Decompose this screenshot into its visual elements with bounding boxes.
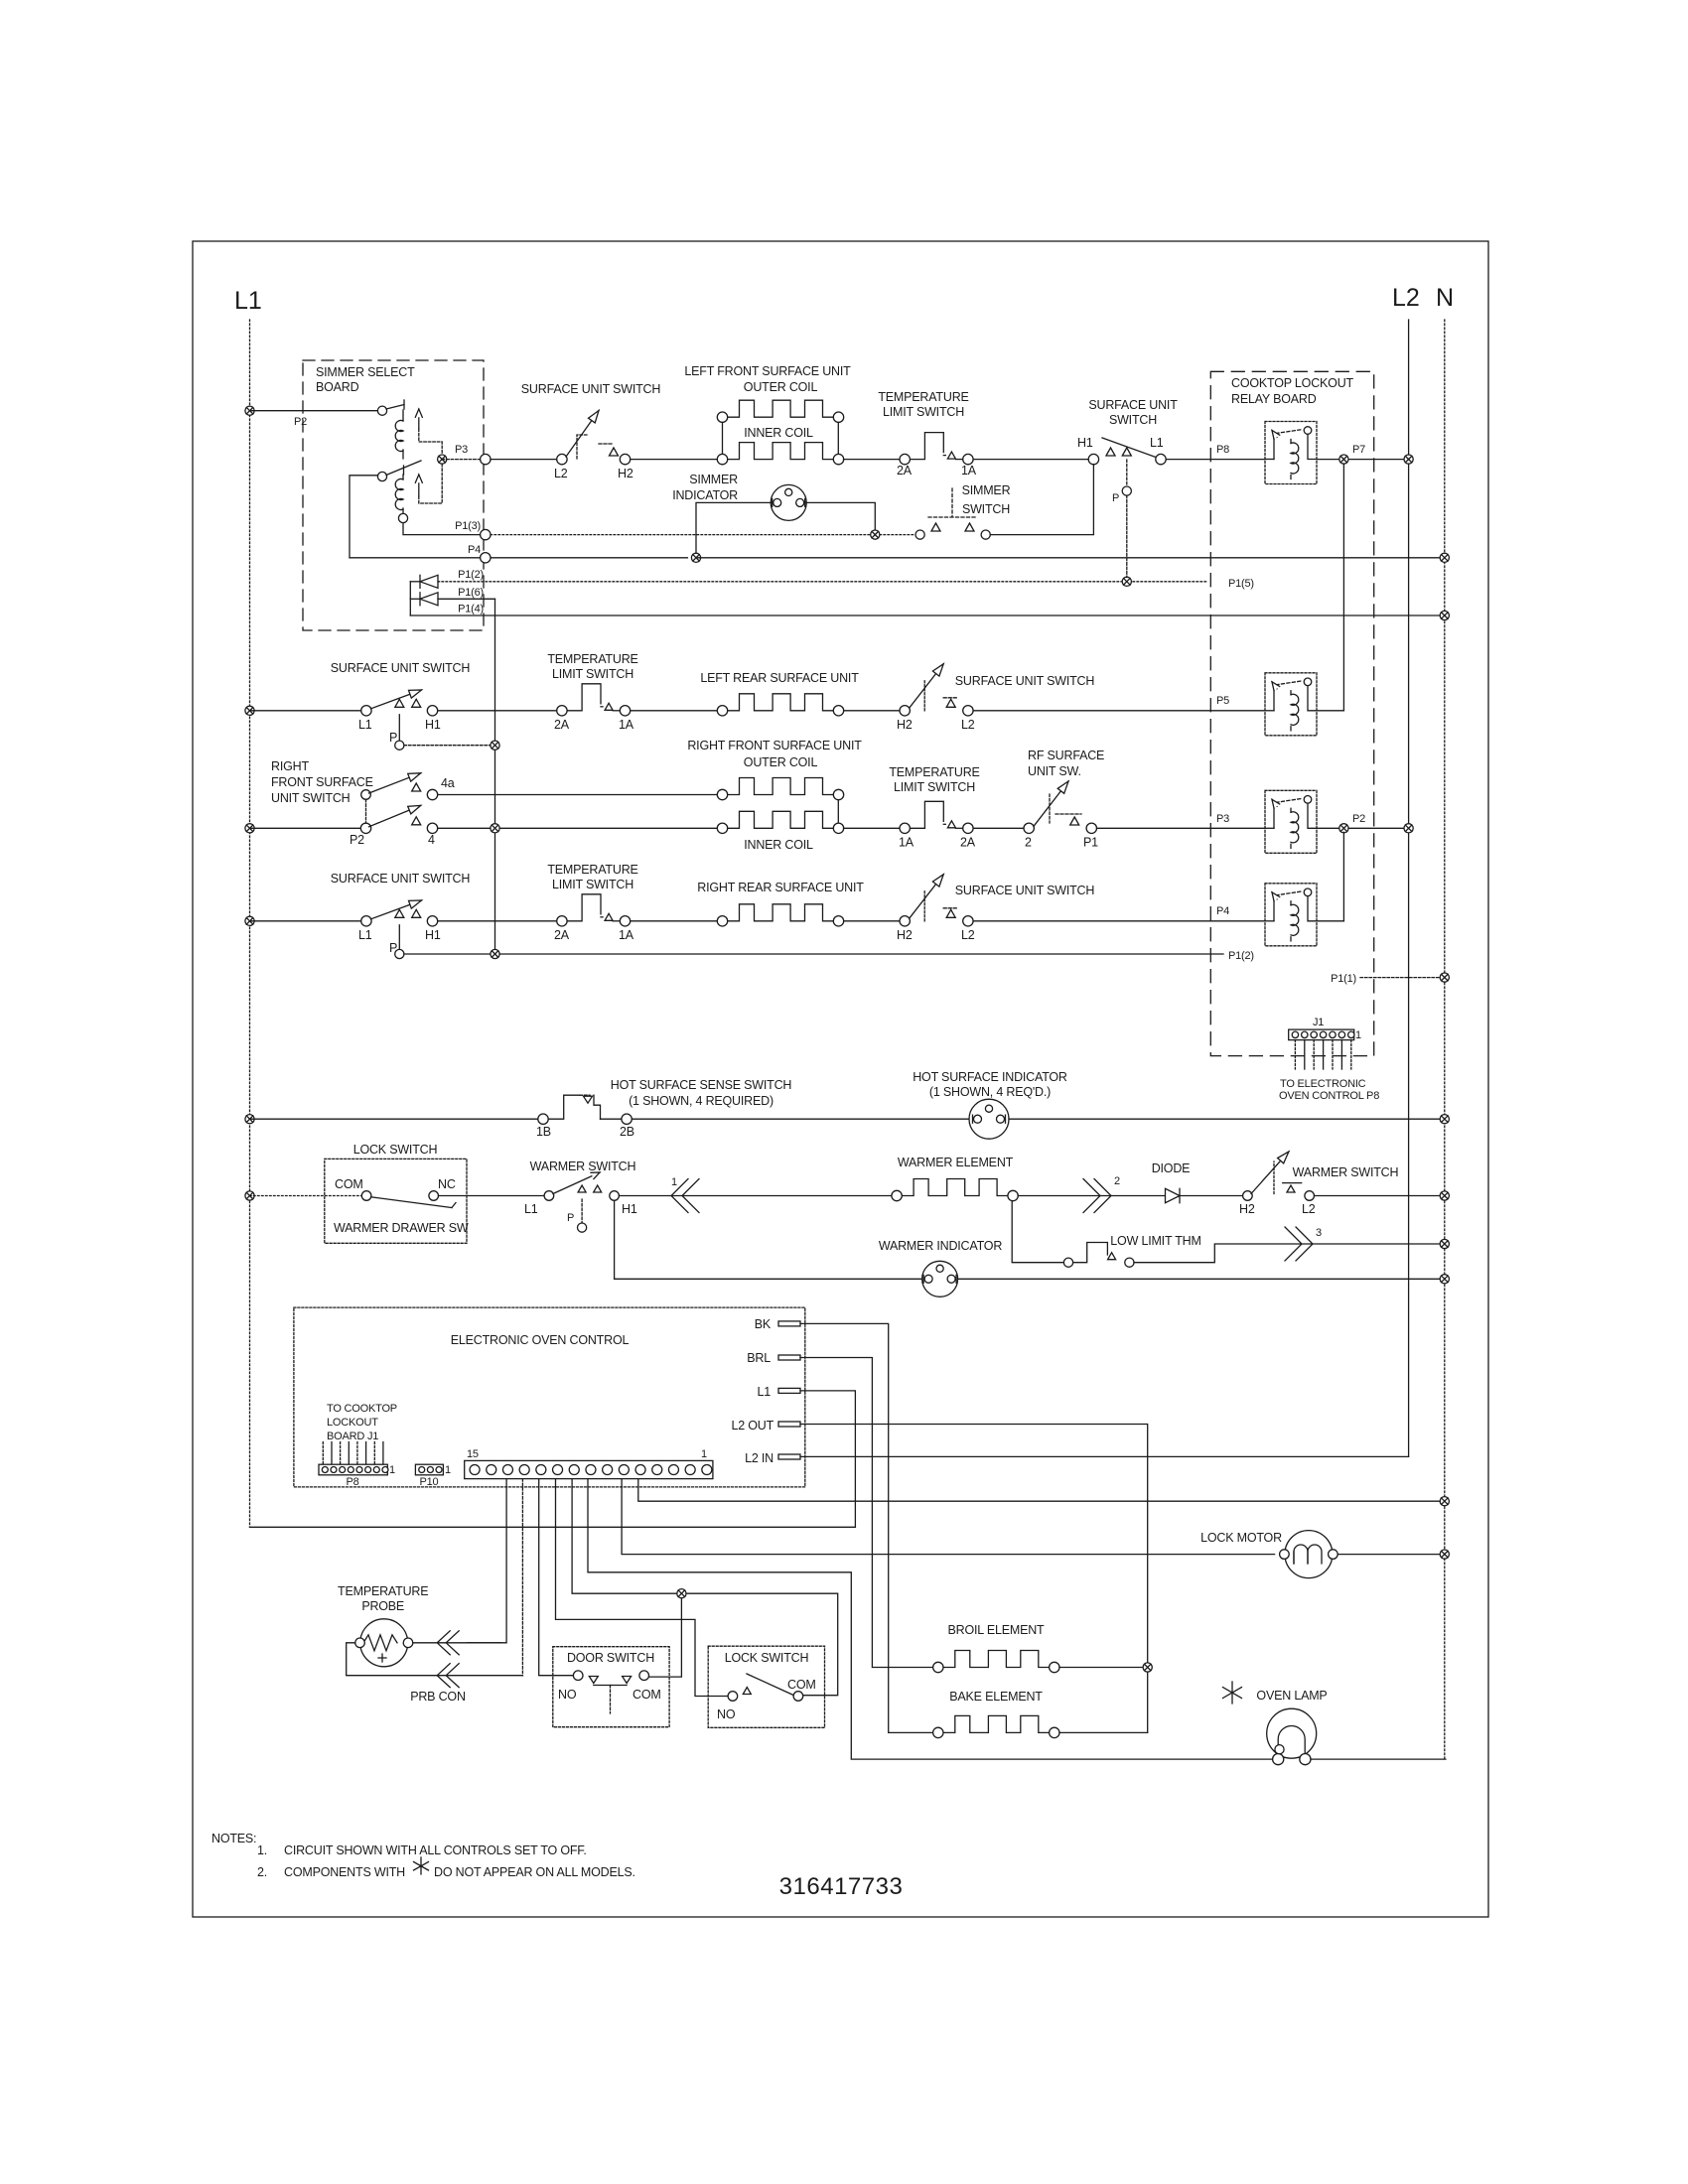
wire warmer indicator to N bbox=[958, 1278, 1445, 1280]
svg-text:H1: H1 bbox=[1077, 436, 1093, 450]
connector J1 bbox=[1289, 1029, 1354, 1040]
wire element to H2 row2 bbox=[844, 710, 900, 712]
node bus crossing row3 bbox=[438, 827, 718, 829]
surface unit switch row1 right (H1-L1) bbox=[1077, 436, 1166, 465]
interlock probe bottom bbox=[446, 1664, 459, 1688]
svg-text:L1: L1 bbox=[358, 718, 372, 732]
node row2 on L1 bbox=[245, 706, 254, 715]
svg-text:INDICATOR: INDICATOR bbox=[672, 488, 738, 502]
wire element to diode bbox=[1018, 1195, 1165, 1197]
svg-text:1A: 1A bbox=[961, 464, 977, 478]
svg-text:WARMER ELEMENT: WARMER ELEMENT bbox=[898, 1156, 1014, 1169]
relay RLY1 (P8-P7) bbox=[1265, 422, 1317, 484]
svg-text:LIMIT SWITCH: LIMIT SWITCH bbox=[883, 405, 964, 419]
svg-text:SURFACE UNIT SWITCH: SURFACE UNIT SWITCH bbox=[521, 382, 661, 396]
svg-text:SWITCH: SWITCH bbox=[1109, 413, 1157, 427]
svg-text:WARMER SWITCH: WARMER SWITCH bbox=[530, 1160, 636, 1173]
svg-text:H2: H2 bbox=[897, 718, 913, 732]
wire EOC pin to probe top bbox=[468, 1479, 506, 1643]
svg-text:L2: L2 bbox=[961, 718, 975, 732]
temperature limit switch row3 bbox=[899, 801, 976, 849]
node junction simmer indicator / P4 bbox=[691, 553, 700, 562]
svg-text:LIMIT SWITCH: LIMIT SWITCH bbox=[552, 878, 633, 891]
wire element to H2 row4 bbox=[844, 920, 900, 922]
svg-text:NO: NO bbox=[717, 1707, 736, 1721]
svg-text:P: P bbox=[1112, 492, 1119, 504]
svg-text:H1: H1 bbox=[425, 718, 441, 732]
svg-text:1.: 1. bbox=[257, 1843, 267, 1857]
wire EOC pin to lock switch COM bbox=[572, 1479, 838, 1696]
svg-text:1A: 1A bbox=[899, 835, 914, 849]
svg-text:LIMIT SWITCH: LIMIT SWITCH bbox=[894, 780, 975, 794]
wire relay4 out bbox=[1317, 920, 1343, 922]
svg-text:L1: L1 bbox=[234, 287, 262, 315]
border frame bbox=[193, 241, 1488, 1917]
svg-text:2A: 2A bbox=[960, 835, 976, 849]
wire H2 to inner coil bbox=[631, 459, 718, 461]
svg-text:J1: J1 bbox=[1313, 1017, 1324, 1028]
wire probe bottom interlock to EOC bbox=[437, 1675, 522, 1677]
svg-text:P1: P1 bbox=[1083, 835, 1098, 849]
svg-text:P1(2): P1(2) bbox=[458, 569, 484, 581]
svg-text:N: N bbox=[1436, 284, 1454, 312]
wire inner coil to 1A row3 bbox=[844, 827, 901, 829]
asterisk mark bbox=[1223, 1682, 1242, 1704]
svg-text:1: 1 bbox=[445, 1464, 451, 1476]
wire P row4 to P1(2) bbox=[499, 953, 1223, 955]
node relay output junction bbox=[438, 455, 447, 464]
left rear surface unit element bbox=[728, 694, 834, 711]
svg-text:SWITCH: SWITCH bbox=[962, 502, 1010, 516]
wire diode to H2 bbox=[1180, 1195, 1242, 1197]
relay K1 (simmer select) bbox=[377, 400, 442, 460]
wire oven lamp to N riser bbox=[1311, 1758, 1446, 1760]
svg-text:LOCK SWITCH: LOCK SWITCH bbox=[353, 1143, 438, 1157]
svg-text:OVEN CONTROL P8: OVEN CONTROL P8 bbox=[1279, 1090, 1379, 1102]
wire broil right to L2OUT bbox=[1059, 1667, 1143, 1669]
door switch contacts bbox=[558, 1671, 661, 1713]
svg-text:P1(1): P1(1) bbox=[1331, 973, 1356, 985]
lock switch / warmer drawer sw (dashed box) bbox=[325, 1159, 467, 1243]
low limit thermostat bbox=[1063, 1234, 1200, 1267]
svg-text:OUTER COIL: OUTER COIL bbox=[744, 755, 818, 769]
left front outer coil element bbox=[728, 400, 834, 417]
wire L2 IN to L2 rail bbox=[800, 1455, 1409, 1457]
wire EOC pin to lock switch NO bbox=[556, 1479, 729, 1697]
svg-text:LOCK SWITCH: LOCK SWITCH bbox=[725, 1651, 809, 1665]
door switch (dotted box) bbox=[553, 1647, 669, 1727]
svg-text:H2: H2 bbox=[1239, 1202, 1255, 1216]
svg-text:P1(2): P1(2) bbox=[1228, 950, 1254, 962]
wire 1A to element row2 bbox=[631, 710, 718, 712]
svg-text:SURFACE UNIT SWITCH: SURFACE UNIT SWITCH bbox=[955, 884, 1095, 897]
svg-text:L2: L2 bbox=[1392, 284, 1420, 312]
warmer switch right bbox=[1239, 1152, 1316, 1216]
surface unit switch row2 (L1-P-H1) bbox=[358, 690, 441, 745]
svg-text:15: 15 bbox=[467, 1448, 479, 1460]
svg-text:DIODE: DIODE bbox=[1152, 1161, 1191, 1175]
svg-text:2: 2 bbox=[1114, 1175, 1120, 1187]
wire L1 to switch row4 bbox=[250, 920, 361, 922]
wire H1 to 2A row4 bbox=[438, 920, 557, 922]
svg-text:LOCKOUT: LOCKOUT bbox=[327, 1417, 378, 1429]
wire relay chain vertical P2-P4 bbox=[1342, 832, 1344, 921]
svg-text:P4: P4 bbox=[1216, 905, 1229, 917]
svg-text:P2: P2 bbox=[294, 416, 307, 428]
node EOC neutral at N bbox=[1440, 1497, 1449, 1506]
svg-text:RIGHT FRONT SURFACE UNIT: RIGHT FRONT SURFACE UNIT bbox=[687, 739, 862, 752]
hot surface indicator lamp bbox=[969, 1099, 1009, 1139]
node row3 on L1 bbox=[245, 824, 254, 833]
surface unit switch row1 (L2-H2) bbox=[554, 411, 633, 481]
terminal 4 bbox=[427, 823, 437, 833]
svg-text:HOT SURFACE INDICATOR: HOT SURFACE INDICATOR bbox=[913, 1070, 1067, 1084]
svg-text:TO COOKTOP: TO COOKTOP bbox=[327, 1403, 397, 1415]
svg-text:COOKTOP LOCKOUT: COOKTOP LOCKOUT bbox=[1231, 376, 1354, 390]
svg-text:PROBE: PROBE bbox=[361, 1599, 404, 1613]
svg-text:H2: H2 bbox=[618, 467, 633, 480]
wire 1A to H1 bbox=[973, 459, 1088, 461]
wire H1 down to warmer indicator row bbox=[615, 1200, 921, 1279]
wire relay2 out bbox=[1317, 710, 1343, 712]
svg-text:RIGHT: RIGHT bbox=[271, 759, 309, 773]
svg-text:NOTES:: NOTES: bbox=[211, 1832, 256, 1845]
node row4 on L1 bbox=[245, 916, 254, 925]
node P2 on L1 bbox=[245, 406, 254, 415]
wire L2 warmer to N bbox=[1315, 1195, 1445, 1197]
simmer switch bbox=[915, 488, 990, 539]
diode D1 P1(2) bbox=[410, 575, 438, 588]
wire N rail bbox=[1444, 320, 1446, 1759]
wire probe left down bbox=[347, 1643, 437, 1676]
wire probe right to interlock bbox=[413, 1642, 501, 1644]
warmer element bbox=[902, 1179, 1008, 1196]
svg-text:LOW LIMIT THM: LOW LIMIT THM bbox=[1110, 1234, 1200, 1248]
svg-text:L1: L1 bbox=[358, 928, 372, 942]
svg-text:P1(4): P1(4) bbox=[458, 604, 484, 615]
node relay chain top bbox=[1339, 455, 1348, 464]
relay RLY2 (P5) bbox=[1265, 673, 1317, 736]
svg-text:SURFACE UNIT SWITCH: SURFACE UNIT SWITCH bbox=[331, 661, 471, 675]
wire BRL to broil row bbox=[800, 1358, 933, 1668]
svg-text:NC: NC bbox=[438, 1177, 456, 1191]
svg-text:SURFACE UNIT SWITCH: SURFACE UNIT SWITCH bbox=[955, 674, 1095, 688]
wire relay chain vertical P7-P5 bbox=[1342, 464, 1344, 711]
svg-text:2: 2 bbox=[1025, 835, 1032, 849]
wire P1(1) to N bbox=[1360, 977, 1445, 979]
svg-text:2A: 2A bbox=[897, 464, 913, 478]
temperature limit switch row1 bbox=[897, 433, 977, 478]
connector P10 bbox=[415, 1464, 443, 1475]
node door/lock junction bbox=[677, 1589, 686, 1598]
wire L1 rail bbox=[249, 320, 251, 1527]
lock switch contacts bbox=[717, 1674, 816, 1721]
relay RLY3 (P3) bbox=[1265, 790, 1317, 853]
wire EOC pin to door switch NO bbox=[539, 1479, 573, 1676]
wire P1(3) row to simmer switch bbox=[491, 534, 914, 536]
wire L2 OUT to elements bbox=[800, 1425, 1148, 1733]
wire L1 to P8 bbox=[1166, 459, 1265, 461]
wire indicator to N bbox=[1009, 1118, 1445, 1120]
wire bake right to L2OUT bbox=[1059, 1731, 1148, 1733]
wire BK to broil... (bake row) bbox=[800, 1323, 933, 1732]
svg-text:P: P bbox=[567, 1212, 574, 1224]
svg-text:SURFACE UNIT: SURFACE UNIT bbox=[1088, 398, 1178, 412]
svg-text:CIRCUIT SHOWN WITH ALL CONTROL: CIRCUIT SHOWN WITH ALL CONTROLS SET TO O… bbox=[284, 1843, 587, 1857]
svg-text:BOARD J1: BOARD J1 bbox=[327, 1431, 378, 1442]
svg-text:P1(3): P1(3) bbox=[455, 520, 481, 532]
surface unit switch row4 (L1-P-H1) bbox=[358, 900, 441, 955]
wire warmer element to low limit bbox=[1012, 1201, 1063, 1263]
svg-text:INNER COIL: INNER COIL bbox=[744, 426, 813, 440]
diode bus vertical bbox=[409, 582, 411, 615]
svg-text:TEMPERATURE: TEMPERATURE bbox=[547, 863, 637, 877]
node P row4 on bus bbox=[491, 949, 499, 958]
svg-text:TEMPERATURE: TEMPERATURE bbox=[889, 765, 979, 779]
svg-text:1: 1 bbox=[1355, 1029, 1361, 1041]
svg-text:SIMMER: SIMMER bbox=[689, 473, 738, 486]
svg-text:BROIL ELEMENT: BROIL ELEMENT bbox=[948, 1623, 1046, 1637]
node P1(4) at N bbox=[1440, 611, 1449, 619]
svg-text:DOOR SWITCH: DOOR SWITCH bbox=[567, 1651, 654, 1665]
warmer switch left bbox=[524, 1172, 637, 1224]
wire outer-inner connectors bbox=[722, 422, 724, 454]
svg-text:COM: COM bbox=[787, 1678, 816, 1692]
wire simmer indicator right bbox=[804, 502, 876, 529]
svg-text:UNIT SW.: UNIT SW. bbox=[1028, 764, 1081, 778]
wire simmer switch to H1 bbox=[990, 465, 1093, 535]
interlock connector 2 bbox=[1083, 1179, 1100, 1213]
svg-text:P2: P2 bbox=[1352, 813, 1365, 825]
node lock motor at N bbox=[1440, 1550, 1449, 1559]
svg-text:TEMPERATURE: TEMPERATURE bbox=[338, 1584, 428, 1598]
oven lamp bbox=[1267, 1708, 1317, 1765]
svg-text:TEMPERATURE: TEMPERATURE bbox=[878, 390, 968, 404]
svg-text:L1: L1 bbox=[757, 1385, 771, 1399]
svg-text:P5: P5 bbox=[1216, 695, 1229, 707]
svg-text:L2: L2 bbox=[961, 928, 975, 942]
wire NC to warmer switch bbox=[439, 1195, 544, 1197]
wire P1(4) row to N bbox=[410, 614, 1445, 616]
svg-text:1A: 1A bbox=[619, 928, 634, 942]
wire P terminal row4 bbox=[398, 925, 400, 949]
svg-text:P3: P3 bbox=[1216, 813, 1229, 825]
svg-text:(1 SHOWN, 4 REQUIRED): (1 SHOWN, 4 REQUIRED) bbox=[629, 1094, 774, 1108]
wire EOC pin to oven lamp bbox=[588, 1479, 1272, 1760]
node P row2 on bus bbox=[491, 741, 499, 750]
wire EOC neutral pin bbox=[638, 1479, 1440, 1502]
wire P1(6) to bus bbox=[438, 598, 495, 600]
svg-text:COMPONENTS WITH: COMPONENTS WITH bbox=[284, 1865, 405, 1879]
svg-text:1: 1 bbox=[671, 1176, 677, 1188]
svg-text:DO NOT APPEAR ON ALL MODELS.: DO NOT APPEAR ON ALL MODELS. bbox=[434, 1865, 635, 1879]
node warmer row at N bbox=[1440, 1191, 1449, 1200]
svg-text:SIMMER: SIMMER bbox=[962, 483, 1011, 497]
connector P8 leads bbox=[322, 1442, 324, 1465]
node warmer row on L1 bbox=[245, 1191, 254, 1200]
left front inner coil element bbox=[728, 443, 834, 460]
svg-text:P4: P4 bbox=[468, 544, 481, 556]
wire relay1 out to P7 bbox=[1317, 459, 1403, 461]
wire 1A to element row4 bbox=[631, 920, 718, 922]
wire 2B to indicator bbox=[632, 1118, 969, 1120]
svg-text:P8: P8 bbox=[346, 1476, 358, 1488]
wire junction down to door COM bbox=[649, 1598, 682, 1677]
svg-text:TO ELECTRONIC: TO ELECTRONIC bbox=[1280, 1078, 1366, 1090]
wire lock motor to N bbox=[1337, 1554, 1445, 1556]
svg-text:HOT SURFACE SENSE SWITCH: HOT SURFACE SENSE SWITCH bbox=[611, 1078, 792, 1092]
svg-text:SURFACE UNIT SWITCH: SURFACE UNIT SWITCH bbox=[331, 872, 471, 886]
svg-text:L1: L1 bbox=[1150, 436, 1164, 450]
svg-text:LIMIT SWITCH: LIMIT SWITCH bbox=[552, 667, 633, 681]
wire H1 to 2A row2 bbox=[438, 710, 557, 712]
svg-text:4a: 4a bbox=[441, 776, 455, 790]
wire H1 to warmer element bbox=[619, 1195, 892, 1197]
interlock connector 3 bbox=[1285, 1227, 1302, 1261]
hot surface sense switch bbox=[536, 1095, 634, 1139]
wire 2A to 2 row3 bbox=[973, 827, 1024, 829]
svg-text:H1: H1 bbox=[425, 928, 441, 942]
wire L1 to switch row2 bbox=[250, 710, 361, 712]
surface unit switch row4 right (H2-L2) bbox=[897, 875, 975, 942]
svg-text:WARMER DRAWER SW: WARMER DRAWER SW bbox=[334, 1221, 469, 1235]
svg-text:P8: P8 bbox=[1216, 444, 1229, 456]
svg-text:LEFT FRONT SURFACE UNIT: LEFT FRONT SURFACE UNIT bbox=[684, 364, 851, 378]
terminal 4a bbox=[427, 789, 437, 799]
terminal 2 row3 bbox=[1024, 823, 1034, 833]
svg-text:BOARD: BOARD bbox=[316, 380, 359, 394]
svg-text:FRONT SURFACE: FRONT SURFACE bbox=[271, 775, 373, 789]
wire P dotted from switch bbox=[1126, 460, 1128, 486]
svg-text:316417733: 316417733 bbox=[779, 1873, 904, 1900]
wire outer-inner connector row3 bbox=[837, 800, 839, 823]
svg-text:P7: P7 bbox=[1352, 444, 1365, 456]
cooktop lockout relay board (dashed box) bbox=[1210, 371, 1373, 1055]
wire low limit to N via interlock 3 bbox=[1134, 1244, 1445, 1263]
wire P warmer bbox=[581, 1199, 583, 1223]
wire L1 to EOC (bottom horizontal) bbox=[250, 1526, 856, 1528]
wire EOC pin to lock motor bbox=[622, 1479, 1275, 1555]
svg-text:3: 3 bbox=[1316, 1227, 1322, 1239]
svg-text:L2: L2 bbox=[554, 467, 568, 480]
diode warmer bbox=[1166, 1188, 1181, 1202]
svg-text:(1 SHOWN, 4 REQ'D.): (1 SHOWN, 4 REQ'D.) bbox=[929, 1085, 1051, 1099]
diode D2 P1(6) bbox=[410, 593, 438, 606]
node P2 chain bbox=[1339, 824, 1348, 833]
svg-text:WARMER INDICATOR: WARMER INDICATOR bbox=[879, 1239, 1003, 1253]
lock motor bbox=[1280, 1531, 1338, 1578]
wire 4a to outer coil row3 bbox=[438, 794, 718, 796]
svg-text:LEFT REAR SURFACE UNIT: LEFT REAR SURFACE UNIT bbox=[700, 671, 859, 685]
svg-text:L2 OUT: L2 OUT bbox=[731, 1419, 774, 1433]
wire bus x=498 down to row4 P line bbox=[494, 599, 496, 954]
simmer select board (dashed box) bbox=[303, 360, 484, 630]
node warmer indicator row at N bbox=[1440, 1275, 1449, 1284]
svg-text:L2: L2 bbox=[1302, 1202, 1316, 1216]
wire EOC pin to probe bottom (PRB CON) bbox=[521, 1479, 523, 1676]
wire L2 to relay P4 bbox=[973, 920, 1265, 922]
svg-text:ELECTRONIC OVEN CONTROL: ELECTRONIC OVEN CONTROL bbox=[451, 1333, 630, 1347]
node P1(1) at N bbox=[1440, 973, 1449, 982]
temperature limit switch row2 bbox=[554, 684, 634, 732]
wire P terminal row2 bbox=[398, 715, 400, 741]
wire L1 to relay K1 bbox=[250, 410, 377, 412]
relay K2 (simmer select) bbox=[377, 461, 480, 535]
svg-text:WARMER SWITCH: WARMER SWITCH bbox=[1293, 1165, 1399, 1179]
svg-text:RF SURFACE: RF SURFACE bbox=[1028, 749, 1104, 762]
svg-text:P3: P3 bbox=[455, 444, 468, 456]
RF surface unit switch bbox=[1034, 781, 1081, 826]
svg-text:SIMMER SELECT: SIMMER SELECT bbox=[316, 365, 415, 379]
wire L1 eoc down bbox=[800, 1391, 855, 1527]
svg-text:P2: P2 bbox=[350, 833, 364, 847]
svg-text:INNER COIL: INNER COIL bbox=[744, 838, 813, 852]
svg-text:TEMPERATURE: TEMPERATURE bbox=[547, 652, 637, 666]
svg-text:BK: BK bbox=[755, 1317, 772, 1331]
electronic oven control (dotted box) bbox=[294, 1307, 805, 1487]
bake element bbox=[943, 1715, 1050, 1732]
svg-text:P1(5): P1(5) bbox=[1228, 578, 1254, 590]
svg-text:2.: 2. bbox=[257, 1865, 267, 1879]
svg-text:OUTER COIL: OUTER COIL bbox=[744, 380, 818, 394]
node broil at L2OUT riser bbox=[1143, 1663, 1152, 1672]
wire L1 to lock switch bbox=[250, 1195, 362, 1197]
svg-text:LOCK MOTOR: LOCK MOTOR bbox=[1200, 1531, 1282, 1545]
wire L2 to relay P5 bbox=[973, 710, 1265, 712]
wire P3 to L2 terminal bbox=[491, 459, 557, 461]
wire simmer indicator left bbox=[696, 502, 774, 553]
interlock probe top bbox=[446, 1631, 459, 1655]
svg-text:4: 4 bbox=[428, 833, 435, 847]
svg-text:OVEN LAMP: OVEN LAMP bbox=[1256, 1689, 1327, 1703]
svg-text:2A: 2A bbox=[554, 718, 570, 732]
svg-text:1: 1 bbox=[389, 1464, 395, 1476]
connector J1 leads bbox=[1294, 1040, 1296, 1069]
wire P1(2)/P1(5) row bbox=[438, 581, 1207, 583]
node simmer switch junction bbox=[871, 530, 880, 539]
svg-text:P10: P10 bbox=[420, 1476, 439, 1488]
connector P8 bbox=[319, 1464, 387, 1475]
svg-text:COM: COM bbox=[633, 1688, 661, 1702]
surface unit switch row2 right (H2-L2) bbox=[897, 664, 975, 732]
wire L1 to P2 row3 bbox=[250, 827, 361, 829]
svg-text:UNIT SWITCH: UNIT SWITCH bbox=[271, 791, 351, 805]
right front inner coil element bbox=[728, 811, 834, 828]
lock switch (dotted box) bbox=[708, 1646, 824, 1727]
svg-text:P1(6): P1(6) bbox=[458, 587, 484, 599]
temperature probe bbox=[355, 1619, 413, 1667]
svg-text:PRB CON: PRB CON bbox=[410, 1690, 466, 1704]
svg-text:2A: 2A bbox=[554, 928, 570, 942]
node hot surface row at N bbox=[1440, 1115, 1449, 1124]
svg-text:L2 IN: L2 IN bbox=[745, 1451, 774, 1465]
node P4 row at N bbox=[1440, 553, 1449, 562]
broil element bbox=[943, 1651, 1050, 1668]
svg-text:NO: NO bbox=[558, 1688, 577, 1702]
svg-text:1: 1 bbox=[701, 1448, 707, 1460]
node P junction on P1(5) row bbox=[1122, 577, 1131, 586]
node interlock3 row at N bbox=[1440, 1239, 1449, 1248]
node P7 on L2 rail bbox=[1404, 455, 1413, 464]
terminal P1 row3 bbox=[1086, 823, 1096, 833]
simmer indicator lamp bbox=[771, 484, 806, 520]
warmer indicator lamp bbox=[922, 1261, 958, 1297]
wire relay3 out to P2 node bbox=[1317, 827, 1403, 829]
svg-text:H1: H1 bbox=[622, 1202, 637, 1216]
wire inner coil to 2A bbox=[844, 459, 901, 461]
right front outer coil element bbox=[728, 778, 834, 795]
temperature limit switch row4 bbox=[554, 894, 634, 942]
